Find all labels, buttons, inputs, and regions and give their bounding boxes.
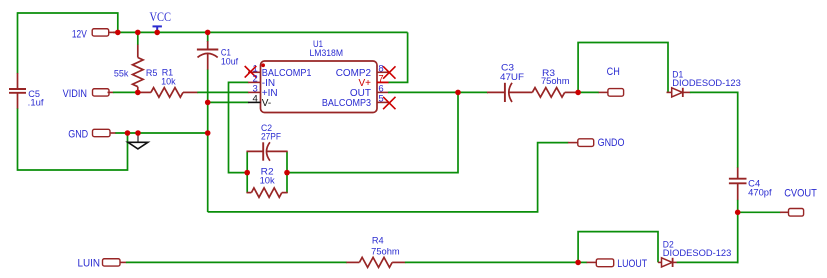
svg-text:LUOUT: LUOUT (617, 258, 647, 270)
svg-text:.1uf: .1uf (28, 98, 44, 108)
svg-text:R4: R4 (372, 236, 384, 246)
wire OUT net (388, 91, 459, 93)
diode D2 (658, 239, 731, 267)
node junction OUT (455, 90, 461, 96)
wire ground column (207, 70, 209, 213)
svg-text:5: 5 (378, 94, 383, 105)
resistor R2 (247, 166, 288, 197)
node junction R5 bottom (135, 90, 141, 96)
node junction fb-right (284, 170, 290, 176)
capacitor C5 (9, 73, 44, 109)
svg-text:CVOUT: CVOUT (784, 188, 817, 200)
wire D1 to C4 (690, 92, 738, 168)
svg-text:55k: 55k (114, 69, 129, 79)
capacitor C4 (729, 168, 772, 201)
svg-text:LM318M: LM318M (310, 48, 344, 58)
wire OUT to C3 (458, 91, 489, 93)
svg-text:10k: 10k (260, 175, 275, 185)
wire C5 lower and bottom-left loop (18, 109, 128, 171)
wire C5 upper (17, 12, 19, 73)
port GNDO (568, 137, 625, 149)
svg-text:75ohm: 75ohm (371, 246, 400, 256)
node junction gnd-left (125, 130, 131, 136)
wire top-left loop (18, 13, 118, 32)
node junction LUOUT (575, 260, 581, 266)
svg-text:VCC: VCC (149, 9, 171, 24)
pin 3 +IN (248, 84, 278, 100)
capacitor C3 (487, 62, 532, 102)
wire feedback box left (246, 151, 248, 193)
pin 1 BALCOMP1 (248, 63, 312, 79)
port 12V (72, 29, 118, 41)
no-connect pin1 (245, 66, 257, 78)
node junction CVOUT (735, 210, 741, 216)
svg-text:DIODESOD-123: DIODESOD-123 (663, 248, 732, 258)
no-connect pin8 (383, 66, 395, 78)
wire R4 to LUOUT node (405, 261, 579, 263)
svg-text:12V: 12V (72, 29, 88, 41)
node junction gnd-symbol (135, 130, 141, 136)
node junction VCC tap (154, 30, 160, 36)
port CH (599, 66, 624, 96)
svg-text:GND: GND (68, 129, 88, 141)
power flag VCC (149, 9, 171, 33)
svg-text:10uf: 10uf (221, 57, 239, 67)
wire D2 to CVOUT column (677, 261, 739, 263)
svg-text:BALCOMP3: BALCOMP3 (322, 98, 371, 109)
pin 7 V+ (358, 74, 388, 90)
svg-text:VIDIN: VIDIN (63, 88, 87, 100)
node junction V- tap (205, 100, 211, 106)
op-amp U1 body (261, 39, 378, 113)
node junction gnd column (205, 130, 211, 136)
wire CH stub (578, 91, 599, 93)
wire C4 to CVOUT node (737, 200, 739, 213)
node junction R5 top (135, 30, 141, 36)
wire LUIN to R4 (126, 261, 347, 263)
pin 6 OUT (350, 84, 389, 100)
svg-text:27PF: 27PF (261, 131, 281, 141)
node junction C1 rail tap (205, 30, 211, 36)
svg-text:75ohm: 75ohm (541, 76, 570, 86)
node junction CH (575, 90, 581, 96)
capacitor C2 (247, 123, 288, 161)
wire VIDIN to R1 (113, 91, 141, 93)
resistor R5 (114, 32, 157, 92)
wire CVOUT stub (738, 211, 781, 213)
port LUOUT (587, 258, 648, 270)
svg-text:10k: 10k (161, 77, 176, 87)
wire CVOUT to D2 column (737, 212, 739, 263)
port VIDIN (63, 88, 114, 100)
svg-text:V-: V- (262, 98, 271, 109)
node junction fb-left (244, 170, 250, 176)
svg-text:LUIN: LUIN (78, 258, 101, 270)
resistor R4 (346, 236, 405, 268)
wire GND net (115, 132, 208, 134)
svg-text:CH: CH (607, 66, 620, 78)
ground (128, 133, 148, 149)
wire pin4 net (208, 101, 249, 103)
svg-text:GNDO: GNDO (598, 137, 625, 149)
wire feedback box right (286, 151, 288, 193)
port LUIN (78, 258, 127, 270)
svg-text:R5: R5 (146, 68, 158, 78)
no-connect pin5 (383, 97, 395, 109)
pin 5 BALCOMP3 (322, 94, 389, 110)
resistor R3 (532, 68, 578, 97)
svg-text:470pf: 470pf (748, 187, 772, 197)
svg-text:4: 4 (253, 94, 258, 105)
wire LUOUT stub (578, 261, 587, 263)
wire rail to pin7 (388, 32, 408, 82)
port GND (68, 129, 116, 141)
svg-text:C3: C3 (501, 62, 514, 72)
diode D1 (667, 69, 741, 97)
wire pin2 net (229, 82, 249, 172)
port CVOUT (780, 188, 817, 217)
svg-text:47UF: 47UF (500, 72, 524, 82)
svg-text:DIODESOD-123: DIODESOD-123 (672, 78, 741, 88)
capacitor C1 (197, 32, 239, 70)
pin 4 V- (248, 94, 271, 110)
wire gnd trace to GNDO (208, 143, 569, 212)
wire LUOUT bypass loop (578, 232, 658, 263)
wire 12V rail (113, 31, 408, 33)
wire feedback to OUT (287, 92, 459, 172)
wire CH bypass loop (578, 43, 668, 94)
node junction 12V-left (115, 30, 121, 36)
pin 2 -IN (248, 74, 275, 90)
resistor R1 (139, 67, 198, 97)
wire R1 to pin3 (197, 91, 248, 93)
pin 8 COMP2 (336, 63, 389, 79)
